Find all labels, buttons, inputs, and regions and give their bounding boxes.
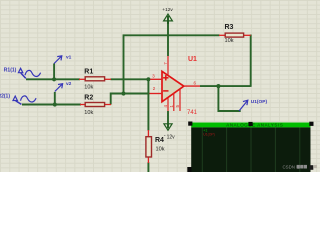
svg-text:741: 741 xyxy=(187,110,198,116)
pin 4 lead xyxy=(167,98,169,112)
svg-text:R3: R3 xyxy=(225,24,234,31)
chart title bar xyxy=(191,121,310,124)
probe v1 arrow xyxy=(54,56,62,64)
plot grid line 2 xyxy=(226,128,228,173)
probe v2 arrow xyxy=(55,84,63,92)
op-amp plus sign xyxy=(163,75,168,80)
generator V1 (sine source) xyxy=(18,68,40,78)
svg-text:v1: v1 xyxy=(66,55,72,61)
selection handle top-left xyxy=(188,122,192,126)
resistor R2 xyxy=(80,103,111,107)
plot grid line 3 xyxy=(250,128,252,173)
svg-text:R1: R1 xyxy=(84,68,93,75)
svg-text:10k: 10k xyxy=(84,85,93,91)
probe v1 stub xyxy=(53,64,55,80)
wire R4 bottom to edge xyxy=(147,162,149,172)
svg-text:10k: 10k xyxy=(225,38,234,44)
plot grid line 4 xyxy=(274,128,276,173)
wire riser R2 to pin2 row xyxy=(111,94,150,105)
watermark CSDN xyxy=(283,165,317,170)
selection handle right-middle xyxy=(309,165,313,170)
resistor R4 xyxy=(146,130,152,163)
junction v2 xyxy=(53,102,57,106)
pin 5 lead xyxy=(179,89,181,111)
junction node A xyxy=(146,77,150,81)
pin 1 lead xyxy=(173,93,175,111)
resistor R3 xyxy=(219,33,251,37)
selection handle left-middle xyxy=(187,167,191,172)
generator V2 (sine source) xyxy=(13,96,36,104)
pin 2 lead xyxy=(150,93,163,95)
op-amp U1 xyxy=(162,71,184,101)
svg-text:R2(1): R2(1) xyxy=(0,94,10,100)
probe v2 stub xyxy=(54,92,56,105)
wire row2 from generator V2 to R2 xyxy=(22,104,81,106)
wire vertical node A down to R4 xyxy=(147,79,149,130)
wire R3 right down to output xyxy=(250,35,252,87)
resistor R1 xyxy=(79,77,111,81)
selection handle top-middle xyxy=(248,122,252,126)
svg-text:U1: U1 xyxy=(188,56,197,63)
wire output pin6 to corner xyxy=(200,85,251,87)
svg-text:12v: 12v xyxy=(167,134,176,140)
svg-text:v2: v2 xyxy=(66,81,72,87)
junction pin2 node xyxy=(121,91,125,95)
svg-text:R2: R2 xyxy=(84,94,93,101)
pin 6 lead xyxy=(184,85,200,87)
chart plot area xyxy=(191,127,310,172)
probe U1(OP) arrow xyxy=(239,100,248,111)
op-amp minus sign xyxy=(163,90,168,92)
wire row1 from generator V1 to node A xyxy=(26,78,80,80)
power -12v arrow xyxy=(164,124,172,131)
wire +12v vertical xyxy=(167,21,169,57)
svg-text:10k: 10k xyxy=(84,110,93,116)
wire row1 right of R1 to junction xyxy=(111,78,150,80)
wire output probe drop xyxy=(218,86,240,111)
svg-text:R4: R4 xyxy=(155,137,164,144)
plot grid line 1 xyxy=(201,128,203,173)
svg-text:ANALOGUE ANALYSIS: ANALOGUE ANALYSIS xyxy=(226,123,283,128)
junction v1 xyxy=(52,77,56,81)
power +12v arrow xyxy=(164,14,173,24)
selection handle top-right xyxy=(309,122,313,126)
svg-text:R1(1): R1(1) xyxy=(4,67,17,73)
pin 3 lead xyxy=(150,78,162,80)
svg-text:+12v: +12v xyxy=(162,7,173,13)
svg-text:U1(OP): U1(OP) xyxy=(203,133,215,137)
plot grid line 5 xyxy=(299,128,301,173)
pin 7 lead xyxy=(167,56,169,76)
wire feedback vertical and horizontal to R3 xyxy=(124,35,220,93)
junction output node xyxy=(216,84,220,88)
svg-text:U1(OP): U1(OP) xyxy=(251,99,268,105)
wire pin4 to -12v arrow xyxy=(167,111,169,125)
analysis chart window xyxy=(191,122,310,172)
svg-text:10k: 10k xyxy=(156,147,165,153)
